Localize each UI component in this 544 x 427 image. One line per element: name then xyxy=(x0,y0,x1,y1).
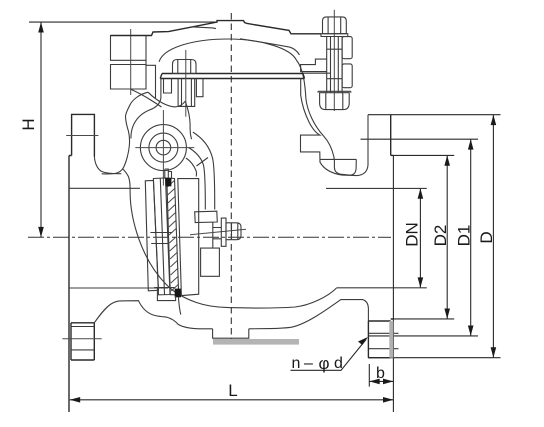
body blob outline left of hinge xyxy=(102,92,148,174)
left flange hub fillet top xyxy=(94,157,121,174)
disc nut xyxy=(226,223,241,240)
bore bottom left xyxy=(69,287,168,289)
dimension D2 xyxy=(444,155,450,319)
bore bottom right / DN bottom extension xyxy=(336,287,426,289)
right flange bottom boss xyxy=(368,321,390,358)
svg-text:d: d xyxy=(334,355,343,372)
cover rim line left xyxy=(193,27,216,29)
bolt U1 nut xyxy=(173,60,197,74)
bolt U1 side blocks xyxy=(164,79,204,97)
bolt B2 right plates xyxy=(342,37,352,59)
centerline horizontal dash-dot xyxy=(28,236,391,238)
disc stem pins xyxy=(165,169,172,178)
L right extension xyxy=(392,155,394,412)
foot xyxy=(213,329,249,338)
pivot crosshair xyxy=(135,110,194,186)
black retainer bottom xyxy=(175,289,181,298)
extension line D2 top xyxy=(391,154,455,156)
dimension D1 xyxy=(468,139,474,336)
svg-text:D1: D1 xyxy=(454,225,473,247)
bracket bolt line xyxy=(130,29,132,95)
hinge pivot circles xyxy=(140,125,186,171)
hinge arm inner arc xyxy=(186,158,197,177)
dimension H vertical line xyxy=(38,22,44,237)
dome right descent xyxy=(296,60,334,159)
hub stem vertical xyxy=(212,222,214,248)
seat rib lines xyxy=(150,233,172,244)
left bottom bolt centerline xyxy=(62,338,101,340)
dimension DN xyxy=(418,188,424,287)
dimension b xyxy=(369,379,393,385)
top cover outline xyxy=(111,21,322,36)
bolt B2 bottom nut xyxy=(318,91,351,109)
body outer bottom outline xyxy=(94,300,368,329)
svg-text:DN: DN xyxy=(403,222,422,247)
foot gray pad xyxy=(213,339,299,345)
b left extension xyxy=(368,364,370,387)
right flange gray strip xyxy=(389,321,393,358)
chamber shelf right xyxy=(320,159,356,175)
dimension D xyxy=(491,115,497,358)
svg-text:D2: D2 xyxy=(431,225,450,247)
bolt B2 shank xyxy=(327,37,342,93)
hinge arm middle arc xyxy=(189,148,206,210)
bolt U1 shank xyxy=(178,79,195,107)
black retainer top xyxy=(165,178,171,186)
extension line D1 bottom xyxy=(369,335,478,337)
left flange face xyxy=(68,156,70,413)
svg-text:b: b xyxy=(376,365,385,382)
svg-text:n: n xyxy=(292,355,301,372)
dimension L xyxy=(70,397,394,403)
disc lower guide line xyxy=(178,297,180,315)
left flange bottom bolt boss xyxy=(71,323,94,360)
seat ring xyxy=(145,181,158,291)
disc backing plate xyxy=(178,179,199,296)
bolt U1 on cover: centerline xyxy=(185,50,187,117)
disc gasket hatched band xyxy=(167,178,179,295)
saddle curve under cover xyxy=(148,92,185,107)
arm elbow joint line xyxy=(197,158,209,167)
extension line D1 top / bolt centerline xyxy=(361,138,479,140)
cover rim line right xyxy=(240,39,300,55)
seat lower block xyxy=(154,288,175,301)
extension line D2 bottom xyxy=(393,318,454,320)
svg-text:φ: φ xyxy=(319,354,330,373)
right bonnet neck / body right outline xyxy=(301,79,369,176)
bracket box 1 (top-left) xyxy=(111,36,147,61)
right bolt hole lines xyxy=(369,333,399,348)
arm foot plate xyxy=(195,211,218,222)
hinge arm outer arc xyxy=(193,132,215,209)
left flange top bolt centerline xyxy=(66,135,98,137)
disc stud axis xyxy=(190,229,246,235)
bore top right / DN top extension xyxy=(326,187,427,189)
bore top left xyxy=(69,187,140,189)
leader n-phi-d with underline xyxy=(291,337,369,370)
bonnet dome arc xyxy=(159,39,296,62)
cover plate xyxy=(160,74,304,79)
left flange top bolt boss xyxy=(69,114,94,156)
svg-text:H: H xyxy=(19,118,38,130)
svg-text:–: – xyxy=(304,355,313,372)
bracket lower S-curve xyxy=(131,89,162,107)
extension line D bottom / flange bottom edge xyxy=(368,357,501,359)
disc stud lines xyxy=(213,228,222,239)
svg-text:L: L xyxy=(228,381,237,400)
bolt B2 left step plate xyxy=(301,59,330,73)
left bottom bolt hole lines xyxy=(71,327,94,350)
extension line D top / flange top edge xyxy=(368,114,501,116)
bracket box 2 xyxy=(111,65,147,90)
right flange plate xyxy=(391,115,394,358)
bonnet neck left xyxy=(131,79,161,139)
bolt B2 top nut xyxy=(323,17,347,34)
svg-text:D: D xyxy=(477,231,496,243)
inner bottom wall (sump) xyxy=(123,169,337,308)
bolt B2 centerline xyxy=(333,10,335,111)
disc hub lower block xyxy=(201,248,220,276)
H top extension line xyxy=(29,21,217,23)
bracket step xyxy=(146,60,156,98)
bolt B2 top washer xyxy=(321,34,348,37)
disc plate xyxy=(153,178,170,295)
right support curve to hinge xyxy=(185,101,191,139)
vertical dashed axis line xyxy=(230,13,232,340)
disc stud washer xyxy=(221,218,226,246)
